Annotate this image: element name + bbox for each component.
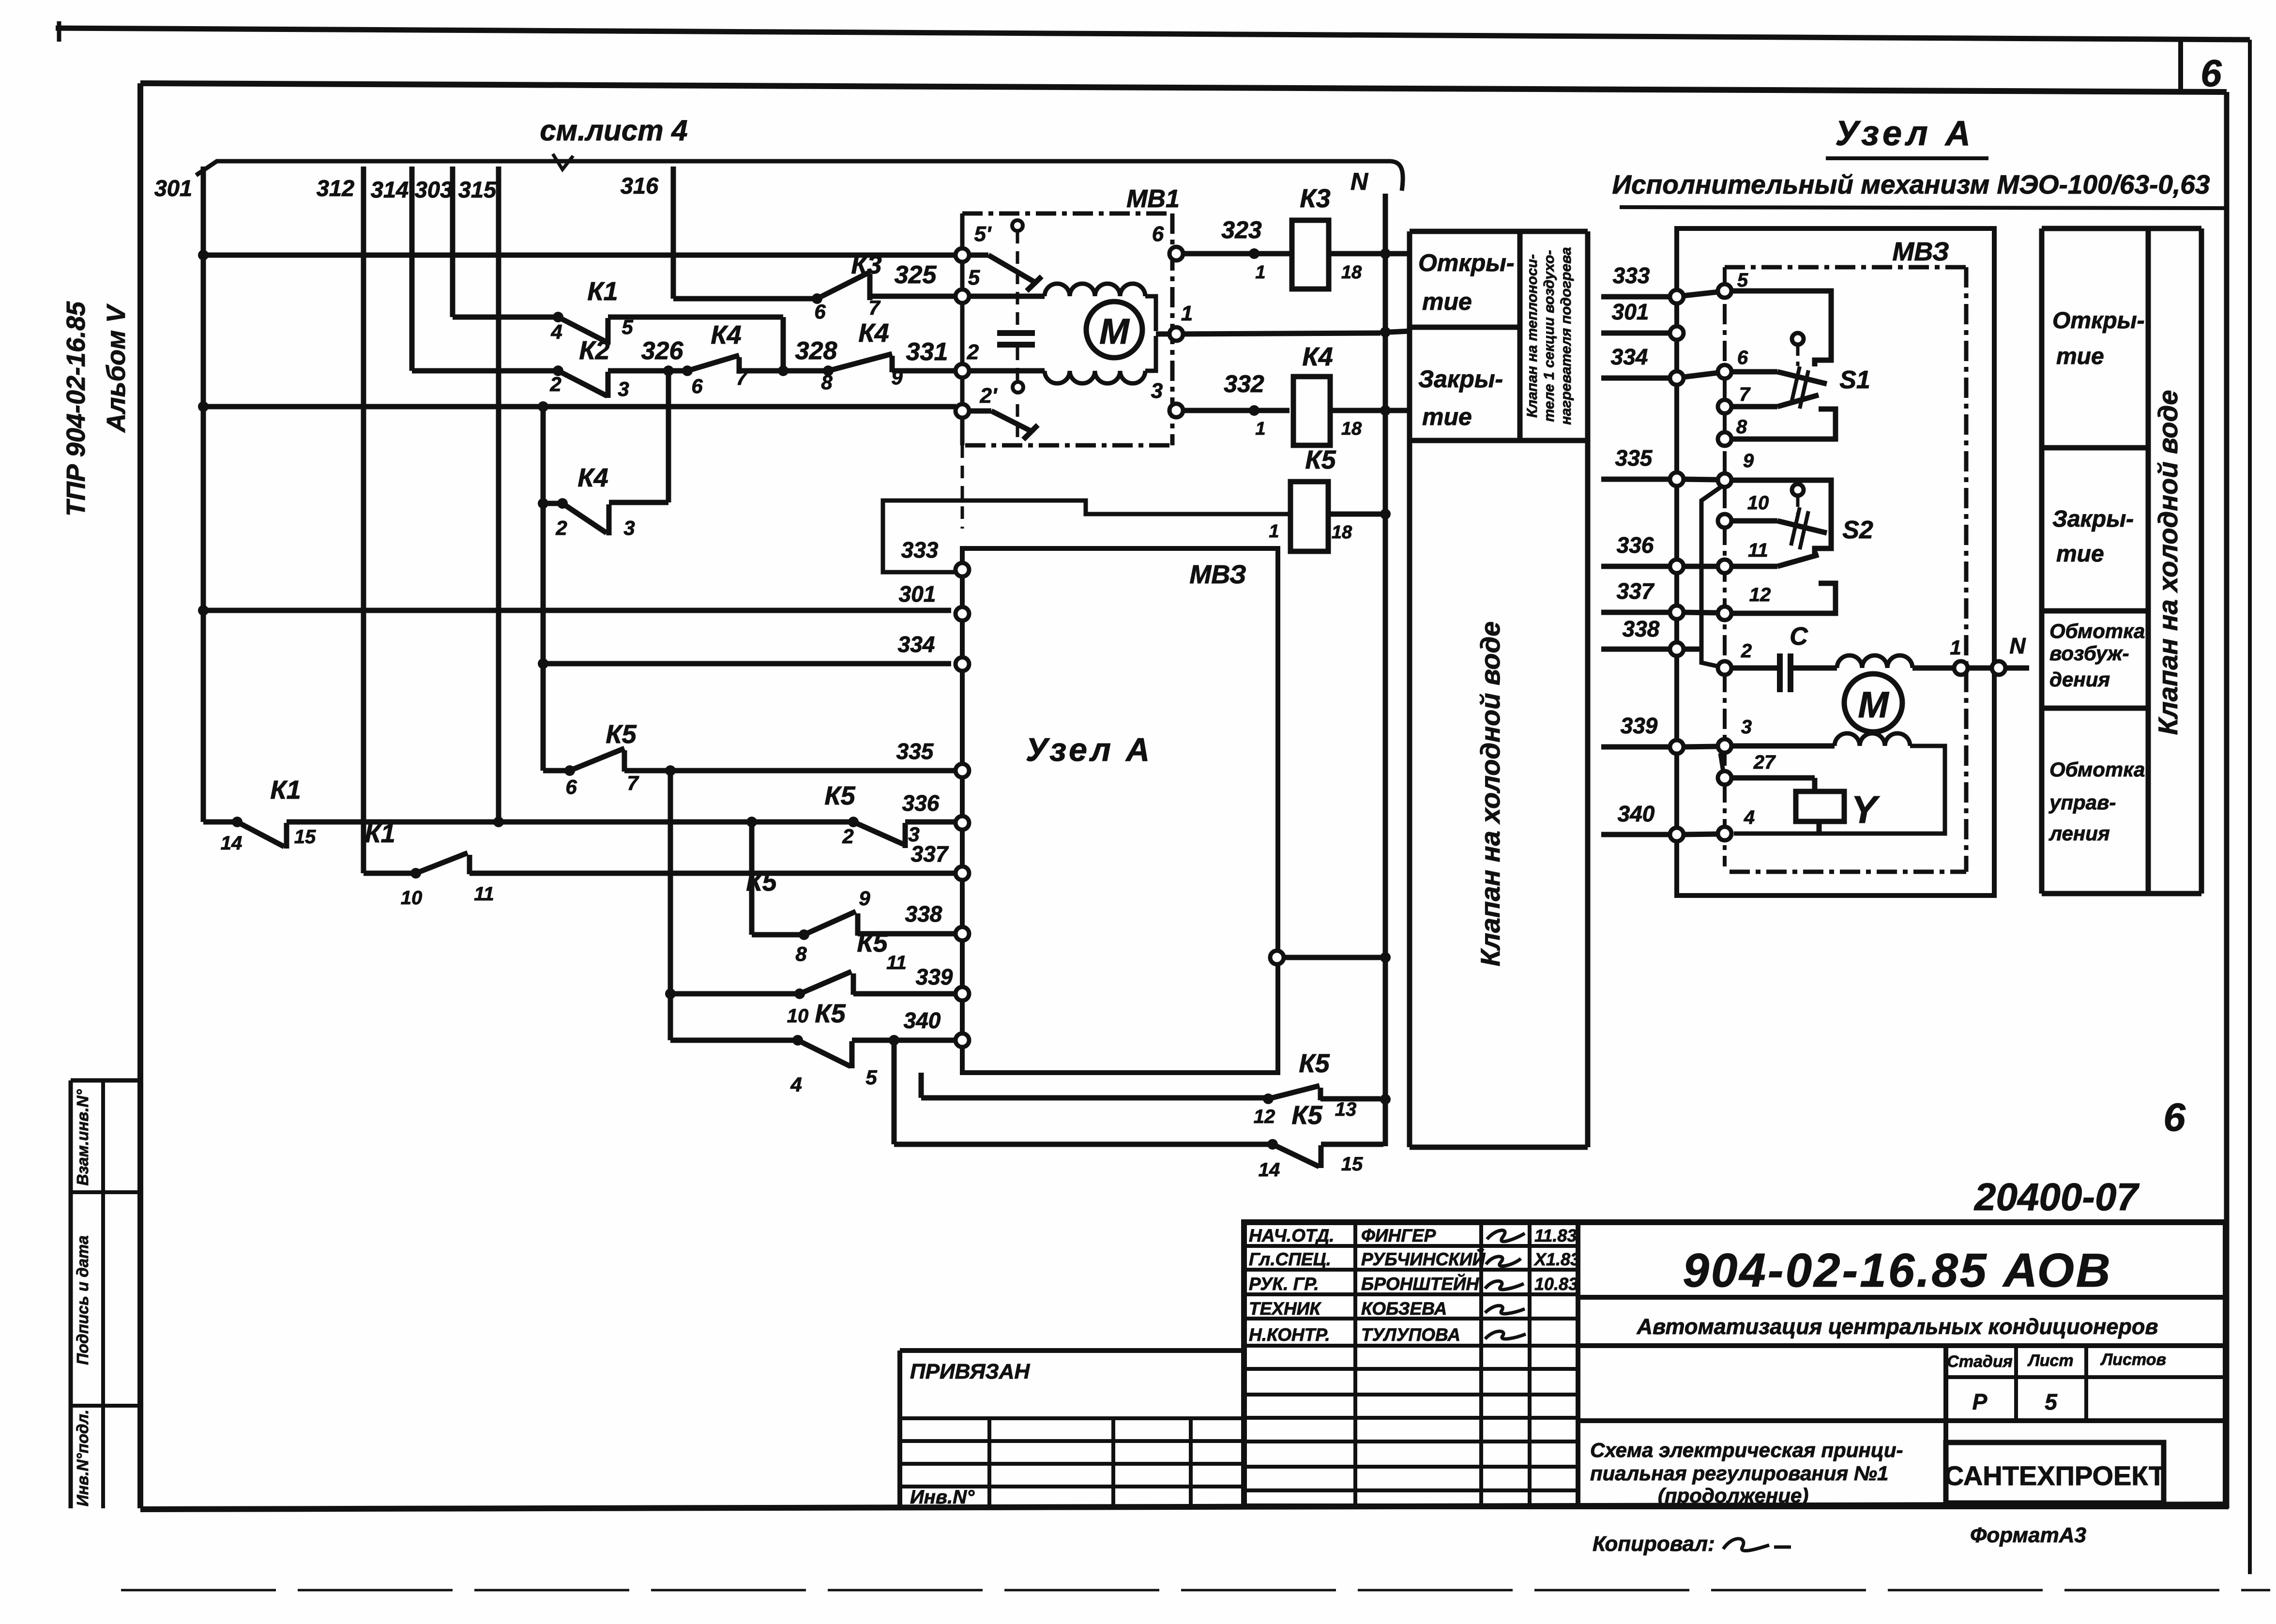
svg-text:М: М [1099,311,1130,351]
svg-text:301: 301 [1612,299,1649,324]
svg-text:(продолжение): (продолжение) [1658,1484,1808,1507]
svg-text:САНТЕХПРОЕКТ: САНТЕХПРОЕКТ [1944,1460,2165,1491]
svg-text:Клапан на холодной воде: Клапан на холодной воде [2153,390,2183,735]
svg-text:12: 12 [1749,584,1771,606]
svg-text:МВ1: МВ1 [1126,185,1180,213]
svg-text:К4: К4 [577,463,608,492]
svg-text:9: 9 [1743,450,1754,471]
svg-text:332: 332 [1224,370,1264,397]
svg-text:2': 2' [980,384,998,408]
svg-text:9: 9 [891,366,903,389]
svg-text:14: 14 [221,833,243,854]
svg-text:X1.83: X1.83 [1533,1249,1580,1269]
svg-text:К5: К5 [815,999,846,1028]
svg-text:НАЧ.ОТД.: НАЧ.ОТД. [1249,1226,1334,1245]
svg-text:К3: К3 [851,250,881,279]
svg-text:339: 339 [916,964,953,989]
svg-text:К5: К5 [1305,445,1336,474]
svg-text:2: 2 [555,516,567,539]
svg-text:ления: ления [2048,822,2110,845]
svg-text:312: 312 [317,175,354,201]
svg-text:Н.КОНТР.: Н.КОНТР. [1249,1325,1330,1345]
svg-text:18: 18 [1341,262,1362,283]
svg-text:С: С [1790,622,1808,651]
svg-text:18: 18 [1341,419,1362,439]
svg-text:904-02-16.85 АОВ: 904-02-16.85 АОВ [1683,1244,2112,1297]
svg-text:334: 334 [1611,344,1648,369]
svg-text:2: 2 [549,373,561,395]
svg-text:6: 6 [1152,222,1164,246]
svg-text:3: 3 [1741,716,1752,738]
svg-text:6: 6 [2163,1095,2186,1139]
svg-text:331: 331 [906,338,948,366]
svg-text:301: 301 [154,175,192,201]
svg-text:Y: Y [1851,788,1880,831]
svg-text:4: 4 [550,320,562,343]
svg-text:8: 8 [795,942,807,965]
svg-text:пиальная регулирования №1: пиальная регулирования №1 [1590,1462,1888,1485]
svg-text:6: 6 [565,775,577,798]
svg-text:управ-: управ- [2048,791,2116,814]
svg-text:8: 8 [821,371,833,394]
svg-text:4: 4 [790,1073,802,1096]
svg-text:ФорматА3: ФорматА3 [1970,1523,2086,1547]
svg-text:Исполнительный механизм МЭО-: Исполнительный механизм МЭО-100/63-0,63 [1612,169,2210,199]
svg-text:К5: К5 [1291,1101,1322,1130]
svg-text:Р: Р [1973,1389,1988,1414]
svg-text:Откры-: Откры- [2052,308,2145,334]
svg-text:5: 5 [968,266,980,289]
svg-text:315: 315 [458,177,497,202]
svg-text:11: 11 [474,883,494,905]
svg-text:6: 6 [1737,347,1748,368]
svg-text:см.лист 4: см.лист 4 [540,114,687,147]
svg-text:325: 325 [895,261,937,289]
svg-text:S2: S2 [1842,516,1873,544]
svg-text:Схема электрическая принци-: Схема электрическая принци- [1590,1439,1903,1461]
svg-text:7: 7 [868,296,880,319]
svg-text:338: 338 [1623,616,1660,641]
svg-text:1: 1 [1269,521,1279,542]
svg-text:334: 334 [898,632,935,657]
svg-text:К1: К1 [587,277,618,306]
svg-text:Обмотка: Обмотка [2049,758,2145,781]
svg-text:335: 335 [896,739,934,764]
svg-text:Узел А: Узел А [1026,731,1153,768]
svg-text:323: 323 [1221,216,1262,243]
svg-text:Подпись и дата: Подпись и дата [74,1235,91,1365]
svg-text:КОБЗЕВА: КОБЗЕВА [1361,1299,1447,1319]
svg-text:К1: К1 [270,775,301,804]
svg-text:11.83: 11.83 [1534,1226,1577,1245]
svg-text:ТПР 904-02-16.85: ТПР 904-02-16.85 [61,301,91,516]
svg-text:337: 337 [911,841,949,866]
svg-text:5: 5 [865,1066,877,1089]
svg-text:7: 7 [1739,384,1751,405]
svg-text:тие: тие [2056,541,2104,567]
svg-text:2: 2 [842,825,853,848]
svg-text:340: 340 [1618,801,1655,826]
svg-text:5': 5' [974,222,992,246]
svg-text:К4: К4 [858,319,889,348]
svg-text:5: 5 [622,316,633,338]
svg-text:нагревателя подогрева: нагревателя подогрева [1558,247,1574,425]
svg-text:7: 7 [736,366,748,389]
svg-text:20400-07: 20400-07 [1973,1175,2140,1218]
svg-text:337: 337 [1617,578,1655,604]
svg-text:К1: К1 [364,819,395,848]
svg-text:18: 18 [1332,522,1352,543]
svg-text:1: 1 [1181,302,1193,325]
svg-text:3: 3 [1151,379,1163,403]
svg-text:Инв.N°подл.: Инв.N°подл. [74,1410,91,1506]
svg-text:316: 316 [621,173,659,198]
svg-text:Листов: Листов [2100,1351,2166,1369]
svg-text:336: 336 [902,790,940,816]
svg-text:Закры-: Закры- [1418,365,1503,393]
svg-text:326: 326 [641,337,684,365]
svg-text:РУК. ГР.: РУК. ГР. [1249,1274,1319,1294]
svg-text:М: М [1858,684,1889,726]
svg-text:333: 333 [1613,263,1650,288]
svg-text:ФИНГЕР: ФИНГЕР [1361,1226,1436,1245]
svg-text:6: 6 [814,300,826,323]
svg-text:13: 13 [1335,1099,1357,1120]
svg-text:Взам.инв.N°: Взам.инв.N° [74,1089,91,1186]
svg-text:8: 8 [1736,416,1747,438]
svg-text:3: 3 [618,378,629,400]
svg-text:дения: дения [2049,668,2110,691]
svg-text:Лист: Лист [2027,1351,2073,1370]
svg-text:9: 9 [859,887,870,910]
svg-text:К5: К5 [1299,1049,1330,1078]
svg-text:К5: К5 [857,928,888,957]
svg-text:МВЗ: МВЗ [1189,560,1246,589]
svg-text:3: 3 [623,516,635,539]
svg-text:Копировал:: Копировал: [1593,1532,1715,1556]
svg-text:5: 5 [2045,1389,2058,1414]
svg-text:303: 303 [415,177,453,202]
svg-text:11: 11 [1748,540,1768,561]
svg-text:Стадия: Стадия [1947,1352,2013,1371]
svg-text:теле 1 секции воздухо-: теле 1 секции воздухо- [1541,250,1557,422]
svg-text:27: 27 [1753,752,1776,773]
svg-text:возбуж-: возбуж- [2049,642,2129,665]
svg-text:ПРИВЯЗАН: ПРИВЯЗАН [910,1360,1030,1383]
svg-text:тие: тие [2056,344,2104,369]
svg-text:Узел А: Узел А [1835,114,1974,153]
svg-text:1: 1 [1255,419,1265,439]
svg-text:БРОНШТЕЙН: БРОНШТЕЙН [1361,1274,1479,1294]
svg-text:2: 2 [967,340,979,364]
svg-text:N: N [2009,633,2026,658]
svg-text:Откры-: Откры- [1418,249,1515,276]
svg-text:N: N [1350,168,1368,195]
svg-text:Закры-: Закры- [2052,506,2134,532]
svg-text:Обмотка: Обмотка [2049,620,2145,642]
svg-text:10: 10 [401,887,423,909]
svg-text:Гл.СПЕЦ.: Гл.СПЕЦ. [1249,1249,1331,1269]
svg-text:5: 5 [1737,270,1748,291]
svg-text:ТЕХНИК: ТЕХНИК [1249,1299,1321,1319]
svg-text:К5: К5 [824,781,855,810]
svg-text:336: 336 [1617,532,1654,558]
svg-text:328: 328 [795,337,837,365]
svg-text:338: 338 [905,901,942,926]
svg-text:14: 14 [1259,1159,1280,1181]
svg-text:15: 15 [1341,1153,1363,1175]
svg-text:К3: К3 [1300,184,1330,213]
svg-text:РУБЧИНСКИЙ: РУБЧИНСКИЙ [1361,1249,1486,1269]
svg-text:Клапан на холодной воде: Клапан на холодной воде [1475,622,1505,967]
svg-text:Клапан на теплоноси-: Клапан на теплоноси- [1524,254,1540,418]
svg-text:10: 10 [787,1005,809,1027]
svg-text:К2: К2 [579,336,609,365]
svg-text:335: 335 [1615,445,1653,471]
svg-text:12: 12 [1254,1106,1275,1127]
svg-text:339: 339 [1621,713,1658,738]
svg-text:1: 1 [1255,262,1265,283]
svg-text:МВЗ: МВЗ [1892,237,1949,266]
svg-text:4: 4 [1744,807,1755,828]
svg-text:314: 314 [371,177,409,202]
svg-text:К4: К4 [1302,342,1333,371]
svg-text:11: 11 [886,952,907,973]
svg-text:2: 2 [1741,640,1752,662]
svg-text:Альбом V: Альбом V [102,304,131,433]
svg-text:301: 301 [899,581,936,607]
svg-text:333: 333 [901,537,939,562]
svg-text:тие: тие [1422,288,1472,315]
svg-text:15: 15 [294,826,316,848]
svg-text:Автоматизация центральных ко: Автоматизация центральных кондиционеров [1636,1314,2158,1339]
svg-text:6: 6 [2200,52,2222,94]
svg-text:Инв.N°: Инв.N° [910,1487,975,1508]
svg-text:К5: К5 [606,720,637,749]
svg-text:340: 340 [904,1008,941,1033]
svg-text:ТУЛУПОВА: ТУЛУПОВА [1361,1325,1460,1345]
svg-text:1: 1 [1950,636,1961,659]
svg-text:10.83: 10.83 [1534,1274,1578,1294]
svg-text:S1: S1 [1839,366,1870,394]
svg-text:7: 7 [627,772,639,794]
svg-text:10: 10 [1747,492,1769,514]
svg-text:тие: тие [1422,403,1472,430]
svg-text:6: 6 [691,375,703,397]
svg-text:К4: К4 [711,320,741,349]
